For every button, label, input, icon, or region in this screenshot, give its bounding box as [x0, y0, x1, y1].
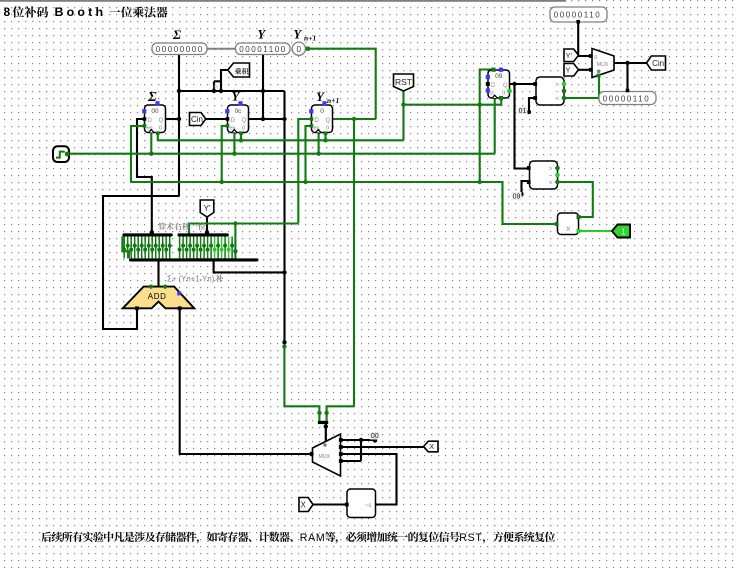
svg-text:0: 0 — [320, 108, 324, 115]
svg-text:0c: 0c — [235, 108, 243, 115]
svg-text:Q: Q — [326, 118, 331, 124]
svg-text:Y: Y — [566, 66, 571, 75]
svg-text:09: 09 — [513, 194, 521, 201]
svg-text:ADD: ADD — [148, 292, 167, 301]
svg-text:>: > — [549, 165, 553, 172]
svg-text:0: 0 — [326, 126, 329, 132]
svg-text:Q: Q — [242, 118, 247, 124]
svg-text:Y: Y — [232, 89, 241, 104]
svg-text:RST: RST — [459, 532, 482, 544]
svg-text:Q: Q — [503, 83, 508, 89]
svg-text:D: D — [148, 118, 153, 124]
svg-text:00000110: 00000110 — [603, 94, 650, 103]
svg-text:01: 01 — [519, 108, 527, 115]
svg-text:D: D — [231, 118, 236, 124]
svg-text:00000110: 00000110 — [554, 11, 601, 20]
svg-text:~: ~ — [549, 172, 553, 179]
svg-text:09: 09 — [495, 73, 503, 80]
svg-text:RAM: RAM — [300, 532, 326, 544]
svg-text:Σ+ (Yn+1-Yn): Σ+ (Yn+1-Yn) — [167, 274, 215, 283]
svg-text:~: ~ — [555, 88, 559, 95]
svg-text:00000000: 00000000 — [156, 45, 204, 54]
svg-text:X: X — [301, 500, 307, 509]
svg-text:MUX: MUX — [319, 454, 331, 460]
svg-text:1: 1 — [621, 227, 626, 236]
svg-text:00001100: 00001100 — [239, 45, 286, 54]
svg-text:0: 0 — [502, 91, 505, 97]
svg-text:D: D — [315, 118, 320, 124]
svg-text:Cin: Cin — [652, 59, 664, 68]
svg-text:D: D — [491, 83, 496, 89]
svg-text:n+1: n+1 — [327, 96, 339, 105]
svg-text:X: X — [566, 226, 571, 233]
svg-text:n+1: n+1 — [304, 34, 316, 43]
svg-text:Cin: Cin — [191, 115, 203, 124]
svg-text:Σ: Σ — [172, 27, 181, 42]
svg-text:0c: 0c — [214, 85, 220, 91]
svg-text:Booth: Booth — [55, 5, 107, 19]
svg-text:Y: Y — [316, 89, 325, 104]
svg-text:Q: Q — [159, 118, 164, 124]
svg-text:MUX: MUX — [597, 62, 609, 68]
svg-text:0: 0 — [242, 126, 245, 132]
svg-text:Σ: Σ — [147, 90, 157, 105]
svg-text:00: 00 — [151, 108, 159, 115]
svg-text:Y': Y' — [204, 204, 211, 213]
svg-text:Y': Y' — [566, 51, 573, 60]
svg-text:<: < — [549, 179, 553, 186]
svg-text:~s: ~s — [365, 503, 372, 509]
svg-text:00: 00 — [371, 433, 379, 440]
svg-text:>: > — [555, 81, 559, 88]
svg-text:<: < — [555, 95, 559, 102]
svg-text:0: 0 — [159, 126, 162, 132]
svg-text:X: X — [429, 442, 434, 451]
svg-text:0: 0 — [297, 45, 302, 54]
svg-text:RST: RST — [395, 77, 412, 87]
svg-text:0: 0 — [594, 55, 597, 61]
svg-text:8: 8 — [4, 5, 11, 19]
